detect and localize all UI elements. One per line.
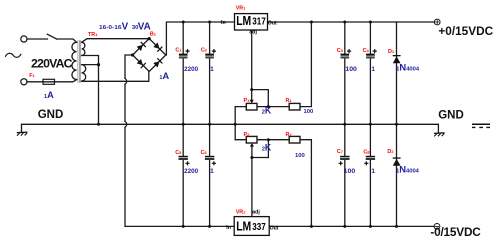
svg-text:C7: C7 (337, 149, 344, 155)
svg-text:Out: Out (268, 20, 277, 26)
svg-text:2200: 2200 (184, 168, 198, 175)
svg-text:TR1: TR1 (88, 32, 98, 38)
svg-text:1: 1 (210, 168, 214, 175)
svg-text:adj: adj (252, 210, 260, 216)
svg-text:2200: 2200 (184, 66, 198, 73)
svg-text:LM: LM (236, 219, 251, 234)
svg-text:1: 1 (371, 66, 375, 73)
svg-text:In: In (226, 225, 231, 231)
svg-text:16-0-16: 16-0-16 (99, 25, 122, 31)
svg-text:LM: LM (236, 13, 251, 28)
svg-text:VR2: VR2 (236, 210, 247, 216)
svg-text:100: 100 (304, 109, 314, 115)
svg-text:C8: C8 (363, 149, 370, 155)
svg-text:-0/15VDC: -0/15VDC (430, 225, 481, 239)
svg-text:337: 337 (252, 222, 266, 233)
svg-text:1A: 1A (159, 71, 169, 81)
svg-text:+0/15VDC: +0/15VDC (438, 24, 493, 38)
svg-text:Out: Out (270, 226, 279, 232)
svg-text:220VAC: 220VAC (31, 57, 73, 71)
svg-text:VR1: VR1 (236, 5, 247, 11)
svg-text:adj: adj (249, 29, 257, 35)
svg-text:GND: GND (38, 109, 64, 121)
svg-text:In: In (221, 20, 226, 26)
svg-text:V: V (122, 21, 129, 32)
svg-text:100: 100 (345, 66, 357, 73)
svg-text:1N4004: 1N4004 (396, 62, 420, 73)
svg-text:1: 1 (210, 66, 214, 73)
svg-text:D1: D1 (388, 49, 395, 55)
svg-text:1: 1 (371, 168, 375, 175)
svg-text:VA: VA (138, 21, 151, 32)
svg-text:1N4004: 1N4004 (396, 163, 420, 174)
svg-text:C3: C3 (337, 48, 344, 54)
svg-text:C5: C5 (175, 150, 182, 156)
svg-text:1A: 1A (44, 90, 54, 100)
svg-text:C2: C2 (201, 47, 208, 53)
svg-text:GND: GND (438, 109, 464, 121)
svg-text:C4: C4 (363, 48, 370, 54)
svg-text:2K: 2K (262, 143, 272, 153)
svg-text:100: 100 (295, 153, 305, 159)
svg-text:C6: C6 (201, 150, 208, 156)
svg-text:B1: B1 (150, 31, 157, 37)
svg-text:D2: D2 (387, 149, 394, 155)
svg-text:100: 100 (344, 168, 356, 175)
svg-text:C1: C1 (175, 47, 182, 53)
svg-text:317: 317 (252, 16, 266, 27)
svg-text:F1: F1 (29, 73, 35, 79)
